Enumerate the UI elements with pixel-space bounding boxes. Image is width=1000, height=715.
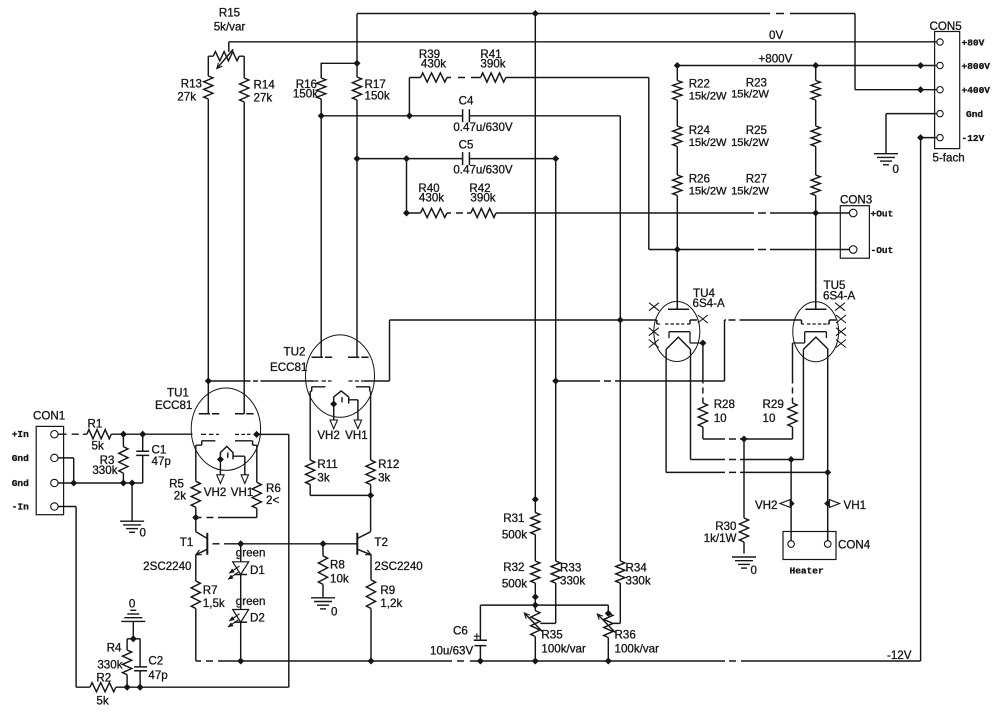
svg-text:VH1: VH1 (844, 499, 867, 512)
resistor R25 15k/2W (731, 124, 820, 149)
svg-text:+800V: +800V (962, 61, 991, 72)
op-amp TU5 6S4-A envelope (793, 279, 856, 362)
wire C1 leads (142, 434, 144, 483)
tube TU2 heater (334, 391, 349, 404)
svg-text:R4: R4 (107, 642, 122, 655)
node junction R4 bottom (124, 684, 130, 690)
capacitor C5 0.47u/630V (453, 139, 513, 177)
node junction R8 top (320, 541, 326, 547)
node junction R32 bottom (532, 594, 538, 600)
svg-text:R36: R36 (615, 629, 636, 642)
resistor R29 10 (763, 398, 798, 427)
node junction TU4 cathode to R28 (700, 340, 706, 346)
tube TU5 unused pin X 2 (836, 315, 846, 323)
svg-text:0.47u/630V: 0.47u/630V (453, 164, 513, 177)
node junction R35 on rail (532, 658, 538, 664)
op-amp TU4 6S4-A envelope (654, 287, 725, 362)
svg-text:R27: R27 (746, 173, 767, 186)
wire R8 feed (322, 544, 324, 556)
wire R12 bottom (370, 485, 372, 496)
wire net C5-right (469, 158, 555, 160)
node VH2 arrow at CON4 (755, 499, 790, 512)
resistor R15 5k/var body (213, 52, 239, 61)
node junction TU1 plate-a / TU2 grid line (205, 378, 211, 384)
svg-text:R13: R13 (181, 78, 202, 91)
wire TU1 plate-a to TU2 grid (208, 380, 313, 382)
svg-text:2k: 2k (174, 490, 186, 503)
node junction top rail / R31 branch (532, 10, 538, 16)
node junction D1 anode (238, 541, 244, 547)
node VH2 arrow at TU2 (317, 420, 340, 442)
ground symbol below R30 (732, 557, 757, 577)
wire D2 to rail (240, 622, 242, 661)
node junction R22 top (674, 62, 680, 68)
svg-text:D1: D1 (250, 564, 265, 577)
svg-text:TU1: TU1 (167, 387, 189, 400)
tube TU5 plate (805, 302, 826, 310)
wire R30 to ground (743, 542, 745, 554)
node junction C2 bottom (137, 684, 143, 690)
op-amp TU1 ECC81 envelope (155, 387, 261, 471)
transistor T2 2SC2240 (357, 532, 422, 573)
tube TU4 plate (668, 302, 689, 310)
svg-text:ECC81: ECC81 (270, 361, 307, 374)
wire TU4 heater leg b (690, 349, 692, 459)
svg-text:330k: 330k (97, 659, 122, 672)
wire TU1 heater VH1 lead (233, 456, 245, 475)
svg-text:CON1: CON1 (33, 410, 65, 423)
wire TU1 heater VH2 lead (219, 459, 221, 474)
wire TU1 plate-a riser (207, 381, 209, 414)
wire R16 bottom to TU2 plate-a (320, 99, 322, 357)
node junction R36 on rail (605, 658, 611, 664)
svg-text:15k/2W: 15k/2W (689, 137, 727, 149)
connector CON5 pin 5 -12V (937, 133, 985, 144)
resistor R16 150k (293, 78, 326, 101)
svg-text:D2: D2 (250, 612, 265, 625)
wire R6 bottom (256, 508, 258, 517)
wire net +Out (496, 212, 850, 214)
wire TU5 heater leg b (827, 349, 829, 472)
wire R25-R27 (815, 147, 817, 176)
node junction VH2 drop (788, 456, 794, 462)
wire heater line VH1 (TU4a to TU5b) (666, 471, 828, 473)
wire R40-R42 link with dash (447, 212, 471, 214)
wire TU1 cathode-a to R5 (195, 445, 197, 481)
wire net -Out (649, 249, 850, 251)
svg-text:5k: 5k (96, 695, 108, 708)
svg-text:+80V: +80V (962, 37, 985, 48)
connector CON1 pin 4 -In (12, 501, 58, 512)
node junction R16 line / C4 line (318, 113, 324, 119)
resistor R34 330k (616, 561, 651, 588)
svg-text:C5: C5 (459, 139, 474, 152)
node junction C5 line end (553, 156, 559, 162)
node junction C5 / R40 feed (403, 156, 409, 162)
resistor R3 330k (92, 447, 128, 477)
tube TU1 heater (220, 446, 233, 459)
svg-text:10u/63V: 10u/63V (430, 645, 473, 658)
wire net +400V right drop (854, 14, 856, 90)
svg-text:15k/2W: 15k/2W (689, 90, 727, 102)
svg-text:Gnd: Gnd (966, 109, 983, 120)
resistor R31 500k (502, 512, 540, 541)
svg-text:ECC81: ECC81 (155, 399, 192, 412)
wire R36 to rail (607, 638, 609, 662)
svg-text:47p: 47p (148, 669, 167, 682)
node junction VH1 drop (825, 469, 831, 475)
svg-text:0: 0 (751, 564, 757, 577)
svg-text:6S4-A: 6S4-A (693, 297, 725, 310)
tube TU4 unused pin X 2 (698, 315, 708, 323)
svg-text:430k: 430k (419, 192, 444, 205)
svg-text:150k: 150k (293, 88, 318, 101)
svg-text:-12V: -12V (962, 133, 985, 144)
wire CON5 -12V pin (921, 137, 937, 139)
node junction R4/C2 top (130, 636, 136, 642)
connector CON1 pin 1 +In (12, 429, 58, 440)
svg-text:0V: 0V (769, 29, 783, 42)
svg-text:VH2: VH2 (204, 486, 227, 499)
svg-text:0: 0 (893, 163, 899, 176)
node junction R35 top on C6 line (532, 602, 538, 608)
node 0V label (769, 29, 783, 42)
svg-text:330k: 330k (560, 575, 585, 588)
svg-text:1,2k: 1,2k (380, 597, 402, 610)
capacitor C6 10u/63V (430, 605, 487, 661)
wire TU5 plate lead (815, 250, 817, 302)
connector CON5 body (930, 20, 965, 165)
svg-text:330k: 330k (92, 464, 117, 477)
svg-text:R15: R15 (219, 7, 240, 20)
svg-text:390k: 390k (470, 192, 495, 205)
wire feedback riser (R2 to TU1 grid-b) (288, 434, 290, 687)
resistor R4 330k (97, 642, 131, 675)
resistor R22 15k/2W (673, 78, 727, 103)
wire R29 feed with dash (792, 343, 794, 403)
node junction TU4 grid feed (617, 317, 623, 323)
svg-text:500k: 500k (502, 528, 527, 541)
svg-text:10: 10 (714, 412, 727, 425)
ground symbol below R8 (311, 598, 337, 619)
svg-text:5k/var: 5k/var (214, 21, 246, 34)
node junction R5/R6 tie (193, 514, 199, 520)
wire R8 to ground (322, 584, 324, 597)
tube TU5 unused pin X 1 (835, 303, 845, 311)
svg-text:0.47u/630V: 0.47u/630V (453, 121, 513, 134)
svg-text:Heater: Heater (790, 566, 825, 577)
connector CON5 pin 2 +800V (937, 61, 991, 72)
svg-text:27k: 27k (254, 92, 273, 105)
svg-text:TU2: TU2 (284, 346, 306, 359)
node -12V label (887, 649, 912, 662)
tube TU1 grid dashes (201, 433, 251, 435)
svg-text:2SC2240: 2SC2240 (143, 560, 191, 573)
wire R1 to TU1 grid (111, 433, 192, 435)
svg-text:CON5: CON5 (930, 20, 962, 33)
svg-text:1k/1W: 1k/1W (704, 532, 737, 545)
node junction C1 top (140, 431, 146, 437)
wire net -12V bottom rail (196, 609, 921, 662)
tube TU2 cathode b (356, 387, 371, 392)
node junction R40 feed corner (403, 210, 409, 216)
resistor R11 3k (306, 458, 338, 485)
svg-text:150k: 150k (365, 90, 390, 103)
svg-text:C2: C2 (148, 655, 163, 668)
wire net C4-left (321, 115, 462, 117)
wire R3 leads (122, 434, 124, 483)
wire R17 bottom to TU2 plate-b (356, 100, 358, 357)
connector CON3 pin 1 +Out (849, 209, 893, 220)
svg-text:1,5k: 1,5k (203, 597, 225, 610)
svg-text:R22: R22 (689, 78, 710, 91)
connector CON4 pin 2 (824, 541, 831, 548)
wire top rail drop to R17 (356, 14, 358, 78)
svg-text:R7: R7 (203, 584, 218, 597)
resistor R33 330k (551, 561, 585, 588)
svg-text:R25: R25 (746, 124, 767, 137)
ground symbol at CON5 (874, 154, 899, 176)
wire R14 bottom to TU1 plate-b (243, 102, 245, 414)
wire CON1 pin1 to R1 (dashed entry) (58, 433, 87, 435)
wire R9 to rail (370, 609, 372, 662)
resistor R1 5k (87, 418, 111, 453)
wire T2 collector (370, 495, 372, 531)
wire R5-R6 tie with dash (196, 517, 257, 519)
node junction R9 on rail (368, 658, 374, 664)
node junction +800V near CON5 (918, 62, 924, 68)
wire R26 to TU4 plate (676, 196, 678, 310)
wire R40 feed drop (407, 159, 421, 213)
wire inverted-ground stem (132, 621, 134, 638)
wire R2 line to feedback riser (76, 686, 289, 688)
connector CON5 pin 1 +80V (937, 37, 985, 48)
wire R34 feed from C4 line (619, 320, 621, 561)
node VH1 arrow at TU1 (231, 475, 254, 499)
svg-text:R11: R11 (317, 458, 337, 471)
wire R29 bottom to tie (792, 427, 794, 439)
wire TU2 heater VH2 lead (333, 404, 335, 420)
node junction R3 top (120, 431, 126, 437)
wire C2 leads (139, 639, 141, 687)
node junction +400V near CON5 (918, 87, 924, 93)
tube TU4 unused pin X 4 (649, 340, 659, 348)
wire R41 to -Out drop (506, 78, 649, 250)
wire R31-R32 (534, 535, 536, 561)
svg-text:390k: 390k (480, 58, 505, 71)
svg-text:15k/2W: 15k/2W (689, 185, 727, 197)
diode D2 green LED (228, 595, 265, 627)
svg-text:430k: 430k (421, 58, 446, 71)
svg-text:CON3: CON3 (840, 194, 872, 207)
resistor R14 27k (240, 78, 276, 105)
tube TU1 plate bars (199, 413, 254, 415)
wire R28 bottom to tie (702, 427, 704, 439)
svg-text:10: 10 (763, 412, 776, 425)
capacitor C1 47p (136, 444, 171, 468)
tube TU2 cathode a (310, 387, 325, 392)
wire R39-R41 link with dash (447, 77, 481, 79)
svg-text:R31: R31 (503, 512, 524, 525)
connector CON1 body (33, 410, 65, 515)
node junction TU1 heater (217, 456, 223, 462)
wire net C6 top line (480, 605, 608, 613)
wire R28-R29 tie line1 (703, 438, 793, 440)
svg-text:C4: C4 (459, 95, 474, 108)
wire net C4-right to vertical (469, 116, 620, 320)
svg-text:100k/var: 100k/var (541, 643, 586, 656)
node VH1 arrow at CON4 (829, 499, 866, 512)
connector CON3 body (840, 194, 872, 259)
wire R33 to R35 wiper (540, 583, 556, 623)
node junction R11/R12 tie (368, 492, 374, 498)
resistor R23 15k/2W (731, 77, 820, 101)
svg-text:VH1: VH1 (231, 486, 254, 499)
connector CON3 pin 2 -Out (849, 245, 893, 256)
wire R30 drop (743, 439, 745, 518)
tube TU5 grid right stub (829, 320, 836, 324)
resistor R26 15k/2W (673, 173, 727, 198)
svg-text:R14: R14 (254, 79, 276, 92)
wire R32 to R35 (534, 583, 536, 611)
connector CON5 pin 3 +400V (937, 85, 991, 96)
resistor R12 3k (366, 458, 399, 485)
resistor R5 2k (169, 478, 200, 508)
node junction VH1 arrow (825, 500, 831, 506)
wire net 0V (R15 wiper to CON5 pin 1) (229, 41, 937, 43)
svg-text:R2: R2 (96, 672, 111, 685)
resistor R30 1k/1W (704, 518, 749, 545)
wire TU1 cathode-b to R6 (256, 445, 258, 482)
svg-text:R28: R28 (714, 398, 735, 411)
svg-text:2SC2240: 2SC2240 (374, 560, 422, 573)
wire R35 to rail (534, 637, 536, 662)
wire net +800V (677, 65, 937, 67)
resistor R9 1,2k (366, 580, 402, 610)
wire net +400V top rail (357, 13, 855, 15)
connector CON4 pin 1 (788, 541, 795, 548)
wire VH2 drop to CON4 (790, 460, 792, 541)
wire R39 feed drop (409, 78, 420, 116)
wire R11 bottom (309, 485, 311, 496)
svg-text:R12: R12 (378, 458, 399, 471)
wire TU5 grid entry (801, 320, 803, 324)
wire heater line VH2 (TU4b to TU5a) (691, 459, 804, 461)
wire R28 feed with dash (702, 343, 704, 403)
node junction R26 chain on -Out (674, 246, 680, 252)
resistor R7 1,5k (191, 581, 225, 610)
resistor R32 500k (502, 561, 540, 590)
svg-text:R26: R26 (689, 173, 710, 186)
wire R15 right lead to R14 (239, 56, 244, 78)
node junction pin2/pin3 (71, 480, 77, 486)
resistor R41 390k (480, 48, 505, 82)
svg-text:27k: 27k (177, 91, 196, 104)
tube TU5 unused pin X 4 (836, 340, 846, 348)
node junction on R31 feed (532, 496, 538, 502)
wire R15 left lead to R13 (208, 56, 213, 76)
wire R15 wiper (228, 42, 230, 52)
wire R4/C2 top bar (127, 638, 140, 640)
resistor R28 10 (698, 398, 735, 427)
resistor R6 2k (252, 482, 281, 508)
svg-text:Gnd: Gnd (12, 453, 29, 464)
node junction R27 bottom on +Out (813, 210, 819, 216)
resistor R24 15k/2W (673, 124, 727, 149)
wire D1 to D2 (240, 575, 242, 610)
wire R13 bottom to TU1 plate-a node (207, 99, 209, 381)
svg-text:R24: R24 (689, 124, 711, 137)
wire CON1 pin4 (-In) (58, 507, 77, 688)
wire R4 leads (126, 639, 128, 687)
svg-text:2<: 2< (266, 494, 279, 507)
wire R11-R12 tie (310, 494, 370, 496)
svg-text:-12V: -12V (887, 649, 912, 662)
svg-text:47p: 47p (152, 455, 171, 468)
wire TU5 heater leg a (802, 349, 804, 459)
resistor R27 15k/2W (731, 173, 820, 198)
resistor R17 150k (352, 77, 389, 103)
svg-text:6S4-A: 6S4-A (823, 290, 855, 303)
svg-text:R33: R33 (560, 562, 581, 575)
svg-text:15k/2W: 15k/2W (731, 89, 769, 101)
wire R33 feed from C5 (555, 159, 557, 561)
capacitor C2 47p (134, 655, 168, 682)
resistor R36 100k/var (597, 613, 659, 655)
svg-text:3k: 3k (317, 472, 329, 485)
node junction R39 feed / C4 line (406, 113, 412, 119)
ground symbol at input (120, 521, 146, 539)
svg-text:-In: -In (12, 501, 29, 512)
wire net +400V to CON5 pin 3 (855, 89, 937, 91)
wire base rail T1-T2 (224, 543, 357, 545)
svg-text:VH2: VH2 (755, 499, 778, 512)
connector CON1 pin 2 Gnd (12, 453, 58, 464)
wire TU4 grid entry (620, 320, 657, 324)
svg-text:R9: R9 (380, 584, 395, 597)
svg-text:0: 0 (140, 527, 146, 540)
node junction C6 on rail (477, 658, 483, 664)
diode D1 green LED (228, 544, 265, 580)
node junction R23 top (813, 62, 819, 68)
wire TU1 grid-b to feedback (257, 433, 289, 435)
connector CON4 body (783, 532, 871, 577)
resistor R13 27k (177, 76, 213, 104)
svg-text:R8: R8 (330, 559, 345, 572)
wire ground stem (131, 483, 133, 521)
svg-text:5k: 5k (92, 440, 104, 453)
tube TU1 cathode a (196, 441, 216, 445)
wire VH1 drop to CON4 (827, 472, 829, 540)
svg-text:Gnd: Gnd (12, 478, 29, 489)
transistor T1 2SC2240 (143, 532, 207, 573)
resistor R2 5k (90, 672, 116, 708)
resistor R39 430k (419, 48, 447, 82)
node junction R30 tap (741, 436, 747, 442)
wire R16 top to node (321, 63, 357, 78)
wire TU2 cathode-b to R12 (370, 391, 372, 460)
wire TU4 plate lead (676, 250, 678, 302)
wire R27 to TU5 plate (815, 196, 817, 310)
tube TU5 cathode (793, 332, 827, 343)
tube TU4 grid dashes (657, 323, 690, 325)
wire net C5-left (357, 158, 463, 160)
node junction TU5-grid branch (553, 378, 559, 384)
svg-text:15k/2W: 15k/2W (731, 185, 769, 197)
tube TU2 plate bars (312, 356, 369, 358)
svg-text:15k/2W: 15k/2W (731, 137, 769, 149)
svg-text:0: 0 (129, 598, 135, 611)
